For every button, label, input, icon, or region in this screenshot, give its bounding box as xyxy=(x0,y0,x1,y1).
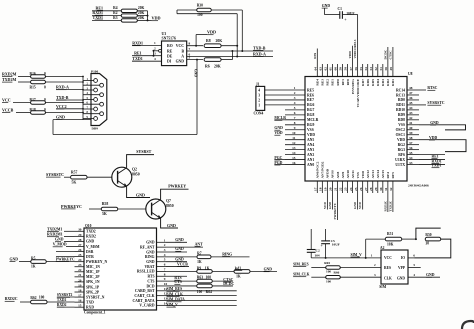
svg-text:RD6: RD6 xyxy=(366,79,370,86)
ground GND wire (U8 VSS pin25, rotated label) xyxy=(357,193,359,210)
wire R57 to Q2 base xyxy=(87,176,112,178)
wire A2 GND pin4 xyxy=(408,276,440,278)
wire R15 to DB9 bus xyxy=(46,81,84,83)
svg-text:VDD: VDD xyxy=(323,201,327,209)
svg-text:R62: R62 xyxy=(30,296,36,300)
svg-text:TXD2: TXD2 xyxy=(86,230,96,234)
svg-text:AN2: AN2 xyxy=(307,153,314,157)
svg-text:61: 61 xyxy=(329,67,333,71)
svg-text:R18: R18 xyxy=(30,108,36,112)
node ANT (Q10 pin2) xyxy=(166,246,203,248)
wire R8 to A vertical xyxy=(221,45,237,47)
svg-text:VDD: VDD xyxy=(207,30,216,35)
svg-text:43: 43 xyxy=(409,111,413,115)
svg-text:DCDC: DCDC xyxy=(383,49,387,59)
svg-text:A: A xyxy=(181,54,184,58)
svg-text:VCAP/VDDCORE: VCAP/VDDCORE xyxy=(356,78,360,107)
svg-text:33: 33 xyxy=(409,161,413,165)
svg-text:RE1: RE1 xyxy=(134,51,142,56)
svg-text:VPP: VPP xyxy=(398,266,406,270)
svg-text:VDD: VDD xyxy=(361,170,365,178)
svg-text:RG2: RG2 xyxy=(398,143,406,147)
node RP6 wire (U8 pin 64, rotated label) xyxy=(316,49,318,65)
node RTS (Q10 pin8) xyxy=(166,275,187,277)
DB9 pins left column xyxy=(94,79,98,83)
svg-text:GND: GND xyxy=(175,258,184,262)
node MCLR wire xyxy=(274,119,285,121)
svg-text:31: 31 xyxy=(384,187,388,191)
svg-text:TXD2M1: TXD2M1 xyxy=(47,228,62,232)
svg-text:GND: GND xyxy=(322,4,331,8)
svg-text:10UF: 10UF xyxy=(346,12,355,16)
svg-text:1: 1 xyxy=(164,238,166,242)
svg-text:RXD2C: RXD2C xyxy=(5,297,18,301)
svg-text:VSS: VSS xyxy=(356,172,360,178)
svg-text:R58: R58 xyxy=(102,202,109,206)
svg-text:R7: R7 xyxy=(197,252,202,256)
svg-text:4: 4 xyxy=(258,88,260,92)
wire Q10 DCD pin10 to R64 xyxy=(166,285,197,287)
svg-text:GND: GND xyxy=(10,257,19,261)
svg-text:PWRKEYC: PWRKEYC xyxy=(333,202,337,219)
ground GND (Q10 pin5) xyxy=(166,261,187,263)
svg-text:R4: R4 xyxy=(113,6,118,10)
svg-text:ENVREG: ENVREG xyxy=(351,79,355,94)
node RXD2C wire (U8 pin31, rotated label) xyxy=(387,193,389,212)
svg-text:RG9: RG9 xyxy=(307,123,315,127)
svg-text:R6: R6 xyxy=(205,64,210,68)
node PWRKEYC wire (U8 pin21, rotated label) xyxy=(336,193,338,220)
svg-text:ANT: ANT xyxy=(195,242,203,246)
svg-text:VDD: VDD xyxy=(307,133,315,137)
wires DB9 bus to pins xyxy=(83,80,94,82)
resistor R2 xyxy=(121,14,137,17)
svg-text:RTS: RTS xyxy=(147,275,154,279)
wires J1 to U8 pins 1-4 xyxy=(265,89,305,91)
wire Q2 emitter to GND xyxy=(127,187,150,198)
svg-text:3: 3 xyxy=(164,248,166,252)
junction on VDD rail xyxy=(147,15,149,17)
svg-text:AN0: AN0 xyxy=(307,163,314,167)
junction B net xyxy=(241,50,243,52)
transistor Q2 8050 xyxy=(112,167,132,187)
svg-text:AN7/PGD2: AN7/PGD2 xyxy=(321,161,325,178)
svg-text:VCCB: VCCB xyxy=(2,107,14,112)
svg-text:26: 26 xyxy=(78,248,82,252)
resistor R9 xyxy=(197,270,213,274)
svg-text:GND: GND xyxy=(136,192,145,197)
svg-text:RD9: RD9 xyxy=(398,113,405,117)
svg-text:10: 10 xyxy=(292,131,296,135)
svg-text:PWRKEYC: PWRKEYC xyxy=(61,204,82,209)
svg-text:36: 36 xyxy=(409,146,413,150)
svg-text:SYSRSTC: SYSRSTC xyxy=(46,172,64,177)
svg-text:VCC: VCC xyxy=(384,256,392,260)
svg-text:SPK_1N: SPK_1N xyxy=(86,280,100,284)
svg-text:5K: 5K xyxy=(72,180,77,184)
wire VCCB to R18 xyxy=(16,112,30,114)
svg-text:20K: 20K xyxy=(214,64,221,68)
resistor R62 xyxy=(31,300,48,304)
svg-text:12: 12 xyxy=(292,141,296,145)
svg-text:GND: GND xyxy=(55,238,64,242)
svg-text:RD7: RD7 xyxy=(361,79,365,86)
wire C1 to U8 VDDCORE pin 56 xyxy=(342,14,357,16)
svg-text:10K: 10K xyxy=(387,243,394,247)
svg-text:28: 28 xyxy=(78,238,82,242)
svg-text:DI: DI xyxy=(167,60,172,64)
svg-text:0: 0 xyxy=(44,72,46,76)
capacitor C5 10UF xyxy=(325,229,327,241)
svg-text:18: 18 xyxy=(319,187,323,191)
svg-text:CTS: CTS xyxy=(174,280,181,284)
svg-text:AN9: AN9 xyxy=(341,171,345,178)
transistor Q7 8050 xyxy=(146,199,166,219)
svg-text:R2: R2 xyxy=(113,11,118,15)
svg-text:TXD1: TXD1 xyxy=(432,164,442,168)
wire VCC to R17 xyxy=(13,102,30,104)
wire Q10 RSSI_LED pin7 to R9 xyxy=(166,270,197,272)
svg-text:VDD: VDD xyxy=(429,136,437,140)
svg-text:R17: R17 xyxy=(30,98,36,102)
resistor R50 xyxy=(425,237,441,241)
svg-text:30: 30 xyxy=(379,187,383,191)
wire stub up from R51/R50 node xyxy=(416,228,441,239)
resistor R51 xyxy=(385,237,402,241)
svg-text:GND: GND xyxy=(193,69,197,77)
wire R64 to DCDC xyxy=(212,285,233,287)
wire VCC2 to DB9 bus xyxy=(56,108,83,110)
node SIM_DATA (Q10 pin13) xyxy=(166,300,237,302)
svg-text:Q7: Q7 xyxy=(166,199,171,203)
svg-text:AN8: AN8 xyxy=(336,171,340,178)
wire led1 to GND xyxy=(250,270,277,272)
watermark corner mark xyxy=(462,321,474,329)
svg-text:VBAT: VBAT xyxy=(145,265,156,269)
svg-text:CART_DATA: CART_DATA xyxy=(132,299,154,303)
wire SYSRSTC to R57 xyxy=(64,176,70,178)
svg-text:56: 56 xyxy=(354,67,358,71)
svg-text:20: 20 xyxy=(329,187,333,191)
connector P100 DB9 body xyxy=(91,74,107,126)
svg-text:OSC1: OSC1 xyxy=(396,133,406,137)
svg-text:PGD: PGD xyxy=(274,161,282,165)
junction R6/B xyxy=(231,50,233,52)
svg-text:RD5: RD5 xyxy=(371,79,375,86)
wire R30 bottom (A side) xyxy=(177,13,237,15)
svg-text:35: 35 xyxy=(409,151,413,155)
resistor R5 xyxy=(31,260,47,264)
node PGD (U8 pin16) xyxy=(274,164,285,166)
resistor R8 xyxy=(204,44,221,48)
svg-text:4: 4 xyxy=(154,57,156,61)
svg-text:RXD-A: RXD-A xyxy=(56,85,69,90)
svg-text:MIC_1N: MIC_1N xyxy=(86,265,100,269)
svg-text:PGC: PGC xyxy=(274,156,282,160)
junction R8/A xyxy=(236,45,238,47)
svg-text:30: 30 xyxy=(425,242,429,246)
svg-text:SIM_RES: SIM_RES xyxy=(293,262,309,266)
svg-text:RE3: RE3 xyxy=(321,79,325,86)
svg-text:AN4: AN4 xyxy=(307,143,314,147)
svg-text:Component_1: Component_1 xyxy=(84,311,106,315)
wire R2 to VDD rail xyxy=(137,15,147,17)
svg-text:25: 25 xyxy=(354,187,358,191)
node PGC (U8 pin15) xyxy=(274,159,285,161)
svg-text:42: 42 xyxy=(409,116,413,120)
U8 right pin stubs and numbers 48-33 xyxy=(407,89,419,91)
svg-text:SIM: SIM xyxy=(379,285,386,289)
wire U3 GND pin 5 to R6 xyxy=(187,59,203,61)
svg-text:TXD2M: TXD2M xyxy=(2,77,16,82)
wire SIM_V rail xyxy=(311,257,381,259)
resistor R4 xyxy=(121,9,137,12)
wire SIM IO pin6 xyxy=(408,257,415,259)
svg-text:VDD: VDD xyxy=(348,51,352,59)
svg-text:100: 100 xyxy=(206,276,212,280)
svg-text:16: 16 xyxy=(292,161,296,165)
Q10 right pin stubs and numbers 1-14 xyxy=(157,241,167,243)
sim holder A2 body xyxy=(381,250,408,284)
svg-text:AN1: AN1 xyxy=(307,158,314,162)
svg-text:CARD_RST: CARD_RST xyxy=(135,289,155,293)
svg-text:CON4: CON4 xyxy=(254,111,264,115)
svg-text:R65: R65 xyxy=(324,261,330,265)
svg-text:AVSS: AVSS xyxy=(331,170,335,179)
node SIM_V (Q10 pin14) xyxy=(166,304,237,306)
svg-text:SYSRST: SYSRST xyxy=(136,149,151,154)
ground GND wire (U8 AVSS pin20, rotated label) xyxy=(331,193,333,210)
svg-text:51: 51 xyxy=(379,67,383,71)
svg-text:RD8: RD8 xyxy=(398,118,405,122)
svg-text:RSSI_LED: RSSI_LED xyxy=(137,270,155,274)
svg-text:AN14: AN14 xyxy=(376,170,380,179)
svg-text:20K: 20K xyxy=(138,16,145,20)
svg-text:U1RX: U1RX xyxy=(395,158,405,162)
wire R63 to CTSC xyxy=(212,280,233,282)
svg-text:DTR: DTR xyxy=(86,255,94,259)
svg-text:53: 53 xyxy=(369,67,373,71)
svg-text:11: 11 xyxy=(292,136,296,140)
svg-text:V_MSM: V_MSM xyxy=(86,245,100,249)
svg-text:20: 20 xyxy=(78,278,82,282)
wire R50 to SIM IO pin6 xyxy=(415,239,451,258)
svg-text:R50: R50 xyxy=(425,233,431,237)
svg-text:AN15: AN15 xyxy=(381,170,385,179)
wire U3 VCC pin 8 to VDD xyxy=(187,45,203,47)
svg-text:20K: 20K xyxy=(138,11,145,15)
wire Q10 RING pin4 to R7 xyxy=(166,256,197,258)
svg-text:8: 8 xyxy=(164,272,166,276)
svg-text:R63: R63 xyxy=(197,276,203,280)
svg-text:RF5: RF5 xyxy=(391,172,395,179)
node RXD1 (U8 pin34) xyxy=(419,159,445,161)
wire R5 to PWRKEYC Q10 pin24 xyxy=(46,261,74,263)
power VDD wire (U8 AVDD pin19, rotated label) xyxy=(326,193,328,210)
svg-text:VCC2: VCC2 xyxy=(56,104,67,109)
wire R66 to A2 CLK pin3 xyxy=(340,276,381,278)
svg-text:41: 41 xyxy=(409,121,413,125)
svg-text:104: 104 xyxy=(315,254,320,258)
svg-text:RE5: RE5 xyxy=(307,88,314,92)
svg-text:2: 2 xyxy=(154,47,156,51)
svg-text:SYSRSTC: SYSRSTC xyxy=(427,101,444,105)
wire R6 right to B pulldown vertical xyxy=(221,59,232,61)
svg-text:RING: RING xyxy=(145,255,155,259)
svg-text:AN12: AN12 xyxy=(366,170,370,179)
resistor R30 xyxy=(197,8,212,12)
svg-text:24FJ64GA006: 24FJ64GA006 xyxy=(408,184,429,188)
svg-text:SN75176: SN75176 xyxy=(162,36,176,40)
svg-text:39: 39 xyxy=(409,131,413,135)
svg-text:GND: GND xyxy=(175,247,184,251)
svg-text:PWRKEYC: PWRKEYC xyxy=(56,257,75,261)
svg-text:PWRKEY: PWRKEY xyxy=(168,184,186,189)
node DCDC wire (U8 pin 50, rotated label) xyxy=(387,47,389,64)
wire ground loop to DB9 xyxy=(53,134,197,136)
svg-text:RE1: RE1 xyxy=(432,155,439,159)
ground GND (Q10 pin3) xyxy=(166,251,187,253)
node CTSC wire (U8 pin 49, rotated label) xyxy=(392,47,394,64)
svg-text:1K: 1K xyxy=(236,274,241,278)
svg-text:25: 25 xyxy=(78,253,82,257)
svg-text:Q10: Q10 xyxy=(85,224,92,228)
svg-text:7: 7 xyxy=(189,47,191,51)
wire R3 to VDD rail xyxy=(137,19,147,21)
svg-text:100: 100 xyxy=(39,295,45,299)
svg-text:48: 48 xyxy=(409,86,413,90)
power VDD wire (U8 ENVREG pin 57, rotated label) xyxy=(352,46,354,64)
wire R62 to Q10 pin16 xyxy=(47,301,75,303)
svg-text:RD1: RD1 xyxy=(391,79,395,86)
svg-text:U3: U3 xyxy=(162,32,167,36)
svg-text:18: 18 xyxy=(78,288,82,292)
resistor R15 xyxy=(31,80,46,83)
svg-text:RXD2M: RXD2M xyxy=(2,71,17,76)
resistor R65 xyxy=(326,266,341,269)
resistor R66 xyxy=(326,276,341,279)
svg-text:VCCB: VCCB xyxy=(177,262,188,266)
wire R7 to RING xyxy=(211,256,250,258)
svg-text:45: 45 xyxy=(409,101,413,105)
DB9 pins right column xyxy=(100,83,104,87)
svg-text:2: 2 xyxy=(258,98,260,102)
node SIM_RES (Q10 pin11) xyxy=(166,290,237,292)
wire R18 to DB9 bus xyxy=(46,112,84,114)
svg-text:29: 29 xyxy=(78,233,82,237)
svg-text:20K: 20K xyxy=(216,39,223,43)
svg-text:37: 37 xyxy=(409,141,413,145)
svg-text:27: 27 xyxy=(78,243,82,247)
ground GND vertical from U3 pin5 xyxy=(196,60,198,135)
svg-text:R16: R16 xyxy=(30,72,36,76)
svg-text:RG8: RG8 xyxy=(307,113,315,117)
svg-text:TXD-B: TXD-B xyxy=(56,95,69,100)
svg-text:RD2: RD2 xyxy=(386,79,390,86)
svg-text:19: 19 xyxy=(78,283,82,287)
svg-text:TXD2C: TXD2C xyxy=(388,200,392,211)
svg-text:P100: P100 xyxy=(91,69,98,73)
svg-text:VDD: VDD xyxy=(152,16,161,21)
svg-text:SPK_2P: SPK_2P xyxy=(86,290,100,294)
wire GND to DB9 xyxy=(53,119,91,121)
svg-text:5K: 5K xyxy=(102,212,107,216)
svg-text:26: 26 xyxy=(359,187,363,191)
svg-text:VDD: VDD xyxy=(274,131,282,135)
svg-text:57: 57 xyxy=(349,67,353,71)
svg-text:GND: GND xyxy=(328,201,332,209)
svg-text:RC13: RC13 xyxy=(396,93,405,97)
svg-text:GND: GND xyxy=(430,121,439,125)
svg-text:59: 59 xyxy=(339,67,343,71)
wire PWRKEYC to R58 xyxy=(89,208,101,210)
svg-text:RP6: RP6 xyxy=(313,53,317,59)
node SYSRSTC (U8 pin45) xyxy=(419,104,426,106)
svg-text:RF0: RF0 xyxy=(346,79,350,86)
svg-text:1K: 1K xyxy=(197,260,202,264)
svg-text:RE7: RE7 xyxy=(307,98,314,102)
wire Q10 pin25 DTR xyxy=(56,256,75,258)
svg-text:RXD: RXD xyxy=(86,306,94,310)
wire TXD-B to DB9 bus xyxy=(56,99,83,101)
resistor R57 xyxy=(71,175,88,179)
svg-text:RXD2C: RXD2C xyxy=(383,200,387,211)
svg-text:1: 1 xyxy=(154,41,156,45)
resistor R63 xyxy=(197,279,213,283)
svg-text:RC14: RC14 xyxy=(396,88,405,92)
junction SIM_V / C5 xyxy=(325,257,327,259)
svg-text:CLK: CLK xyxy=(384,276,392,280)
svg-text:RE6: RE6 xyxy=(307,93,314,97)
wires U8 left pins 5-16 xyxy=(285,109,305,111)
wire R51 to SIM_V xyxy=(365,239,367,258)
svg-text:AN3: AN3 xyxy=(307,148,314,152)
svg-text:R5: R5 xyxy=(31,256,36,260)
svg-text:SYSRST_N: SYSRST_N xyxy=(86,295,105,299)
svg-text:VCC: VCC xyxy=(176,44,184,48)
svg-text:GND: GND xyxy=(264,268,273,272)
svg-text:AVDD: AVDD xyxy=(326,168,330,178)
svg-text:R3: R3 xyxy=(113,16,118,20)
Q10 left pin stubs and numbers 30-15 xyxy=(75,230,85,232)
svg-text:GND: GND xyxy=(146,260,155,264)
svg-text:PWRKEY_N: PWRKEY_N xyxy=(86,260,107,264)
mcu U8 24FJ64GA006 body xyxy=(305,77,407,182)
svg-text:100: 100 xyxy=(326,270,331,274)
svg-text:55: 55 xyxy=(359,67,363,71)
svg-text:SPK_1P: SPK_1P xyxy=(86,285,100,289)
svg-text:VSS: VSS xyxy=(307,128,314,132)
wire R51 to node xyxy=(402,238,416,240)
svg-text:R57: R57 xyxy=(71,170,78,174)
node CTS (Q10 pin9) xyxy=(166,280,197,282)
svg-text:R51: R51 xyxy=(387,232,393,236)
svg-text:8050: 8050 xyxy=(166,204,174,208)
svg-text:VSS: VSS xyxy=(398,123,405,127)
svg-text:SIM_V: SIM_V xyxy=(351,253,363,257)
U8 top pin stubs and numbers 64-49 (rotated) xyxy=(316,64,318,77)
svg-text:49: 49 xyxy=(389,67,393,71)
svg-text:40: 40 xyxy=(409,126,413,130)
svg-text:22: 22 xyxy=(78,268,82,272)
svg-text:GND: GND xyxy=(167,223,176,228)
svg-text:RF4: RF4 xyxy=(386,172,390,179)
svg-text:GND: GND xyxy=(353,201,357,209)
svg-text:VDD: VDD xyxy=(397,138,405,142)
svg-text:AN5: AN5 xyxy=(307,138,314,142)
wire A2 VPP pin5 stub xyxy=(408,267,421,269)
svg-text:GND: GND xyxy=(146,241,155,245)
